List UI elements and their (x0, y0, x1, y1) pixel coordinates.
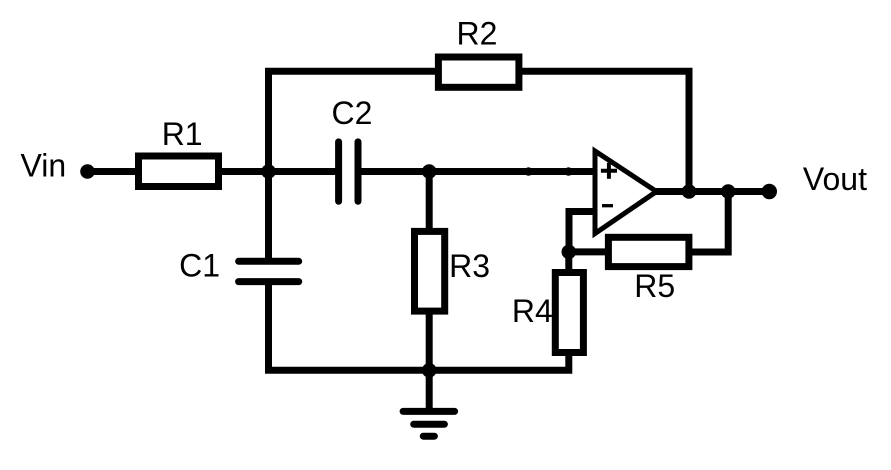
wire node A up, top feedback run, down to output (269, 71, 690, 191)
wire junction up into R4 (565, 252, 572, 290)
ground (403, 370, 455, 436)
svg-text:R1: R1 (162, 116, 203, 152)
node output/R2 junction (682, 184, 697, 199)
resistor R1 (139, 156, 219, 187)
svg-text:Vout: Vout (803, 161, 867, 197)
wire joint dot 1 (524, 167, 533, 176)
svg-text:C1: C1 (179, 248, 220, 284)
wire R5 right up to output (680, 192, 728, 253)
wire node B down through R3 to ground junction (426, 172, 433, 371)
node ground junction (422, 363, 437, 378)
svg-text:R4: R4 (512, 293, 553, 329)
resistor R2 (438, 57, 519, 87)
wire junction to R5 left (569, 248, 620, 255)
node A junction (261, 164, 276, 179)
capacitor C2 (339, 142, 358, 201)
wire Vin to C2 left plate (88, 168, 339, 175)
wire joint dot 2 (564, 167, 573, 176)
wire op-amp output to Vout terminal (650, 188, 769, 195)
node B junction (422, 164, 437, 179)
resistor R3 (415, 231, 445, 311)
wire C1 bottom plate down, bottom rail, up into R4 (269, 282, 569, 371)
node R4/R5/minus junction (562, 245, 577, 260)
node Vout terminal (762, 184, 777, 199)
wire C2 right plate to op-amp + input (358, 168, 595, 175)
wire op-amp minus input to R4/R5 junction (569, 212, 595, 252)
resistor R4 (555, 273, 583, 353)
svg-text:R5: R5 (634, 268, 675, 304)
capacitor C1 (239, 261, 299, 281)
node output/R5 junction (721, 184, 736, 199)
svg-text:R3: R3 (449, 248, 490, 284)
wire node A down to C1 top plate (265, 172, 272, 262)
op-amp plus symbol (601, 163, 617, 179)
svg-text:C2: C2 (332, 95, 373, 131)
node Vin terminal (80, 164, 95, 179)
svg-text:Vin: Vin (21, 148, 67, 184)
resistor R5 (608, 237, 689, 266)
op-amp minus symbol (602, 204, 613, 207)
op-amp U1 (595, 151, 657, 234)
svg-text:R2: R2 (457, 16, 498, 52)
